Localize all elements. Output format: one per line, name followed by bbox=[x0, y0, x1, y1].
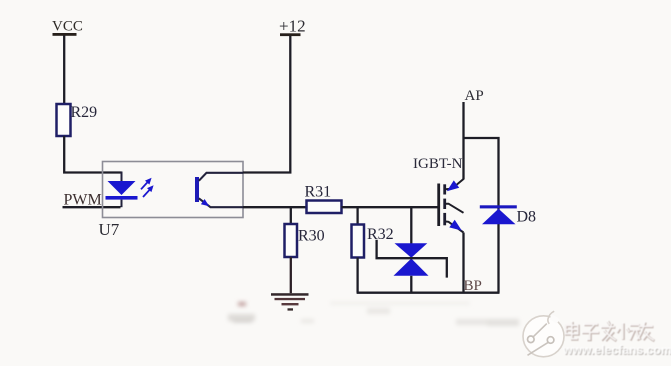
svg-text:VCC: VCC bbox=[52, 19, 83, 35]
svg-text:R30: R30 bbox=[298, 228, 325, 245]
wire opto emitter to R31 bbox=[243, 206, 307, 208]
power symbol +12 bbox=[279, 17, 306, 37]
wire node to R32 bbox=[356, 207, 358, 224]
svg-text:D8: D8 bbox=[517, 209, 537, 226]
TVS bidirectional zener bbox=[377, 240, 447, 278]
svg-text:+12: +12 bbox=[279, 17, 306, 36]
resistor R29 bbox=[57, 104, 98, 136]
power symbol VCC bbox=[52, 19, 83, 36]
optocoupler light arrow 1 bbox=[141, 178, 152, 190]
wire node to TVS bbox=[410, 207, 412, 243]
wire R31 to IGBT gate bbox=[342, 206, 439, 208]
svg-text:R32: R32 bbox=[367, 226, 394, 243]
svg-text:U7: U7 bbox=[99, 220, 120, 239]
wire LED anode lead bbox=[121, 172, 123, 182]
op-to-coupler U7 box bbox=[99, 162, 244, 240]
svg-text:R31: R31 bbox=[305, 184, 332, 201]
watermark logo bbox=[523, 311, 564, 357]
smudge marks (blurred caption remnants) bbox=[228, 302, 519, 327]
resistor R31 bbox=[305, 184, 342, 214]
wire AP to IGBT collector bbox=[462, 102, 464, 180]
wire node to R30 bbox=[290, 207, 292, 224]
wire LED cathode lead bbox=[121, 200, 123, 208]
wire R29 to opto LED anode bbox=[64, 136, 121, 173]
wire bottom rail bbox=[357, 292, 500, 294]
wire VCC to R29 bbox=[63, 36, 65, 105]
wire PWM to opto LED cathode bbox=[63, 206, 121, 208]
svg-text:R29: R29 bbox=[71, 104, 98, 121]
resistor R30 bbox=[285, 224, 325, 257]
wire R32 to bottom rail bbox=[356, 258, 358, 293]
wire branch to D8 bbox=[464, 138, 499, 293]
watermark text bbox=[562, 321, 671, 358]
wire R30 to ground bbox=[290, 257, 292, 293]
wire opto collector to +12 rail bbox=[243, 36, 290, 173]
svg-text:BP: BP bbox=[464, 278, 482, 294]
optocoupler light arrow 2 bbox=[143, 185, 154, 197]
svg-text:IGBT-N: IGBT-N bbox=[413, 156, 463, 172]
resistor R32 bbox=[352, 225, 394, 258]
wire IGBT emitter to bottom rail bbox=[462, 233, 464, 293]
diode LED of U7 bbox=[106, 181, 138, 200]
phototransistor of U7 bbox=[195, 173, 243, 207]
ground bbox=[271, 293, 309, 310]
wire TVS to bottom rail bbox=[410, 276, 412, 293]
svg-text:PWM: PWM bbox=[64, 192, 102, 209]
transistor IGBT-N bbox=[413, 156, 464, 233]
svg-text:AP: AP bbox=[465, 88, 484, 104]
diode D8 bbox=[480, 205, 536, 225]
svg-text:www.elecfans.com: www.elecfans.com bbox=[562, 343, 671, 357]
